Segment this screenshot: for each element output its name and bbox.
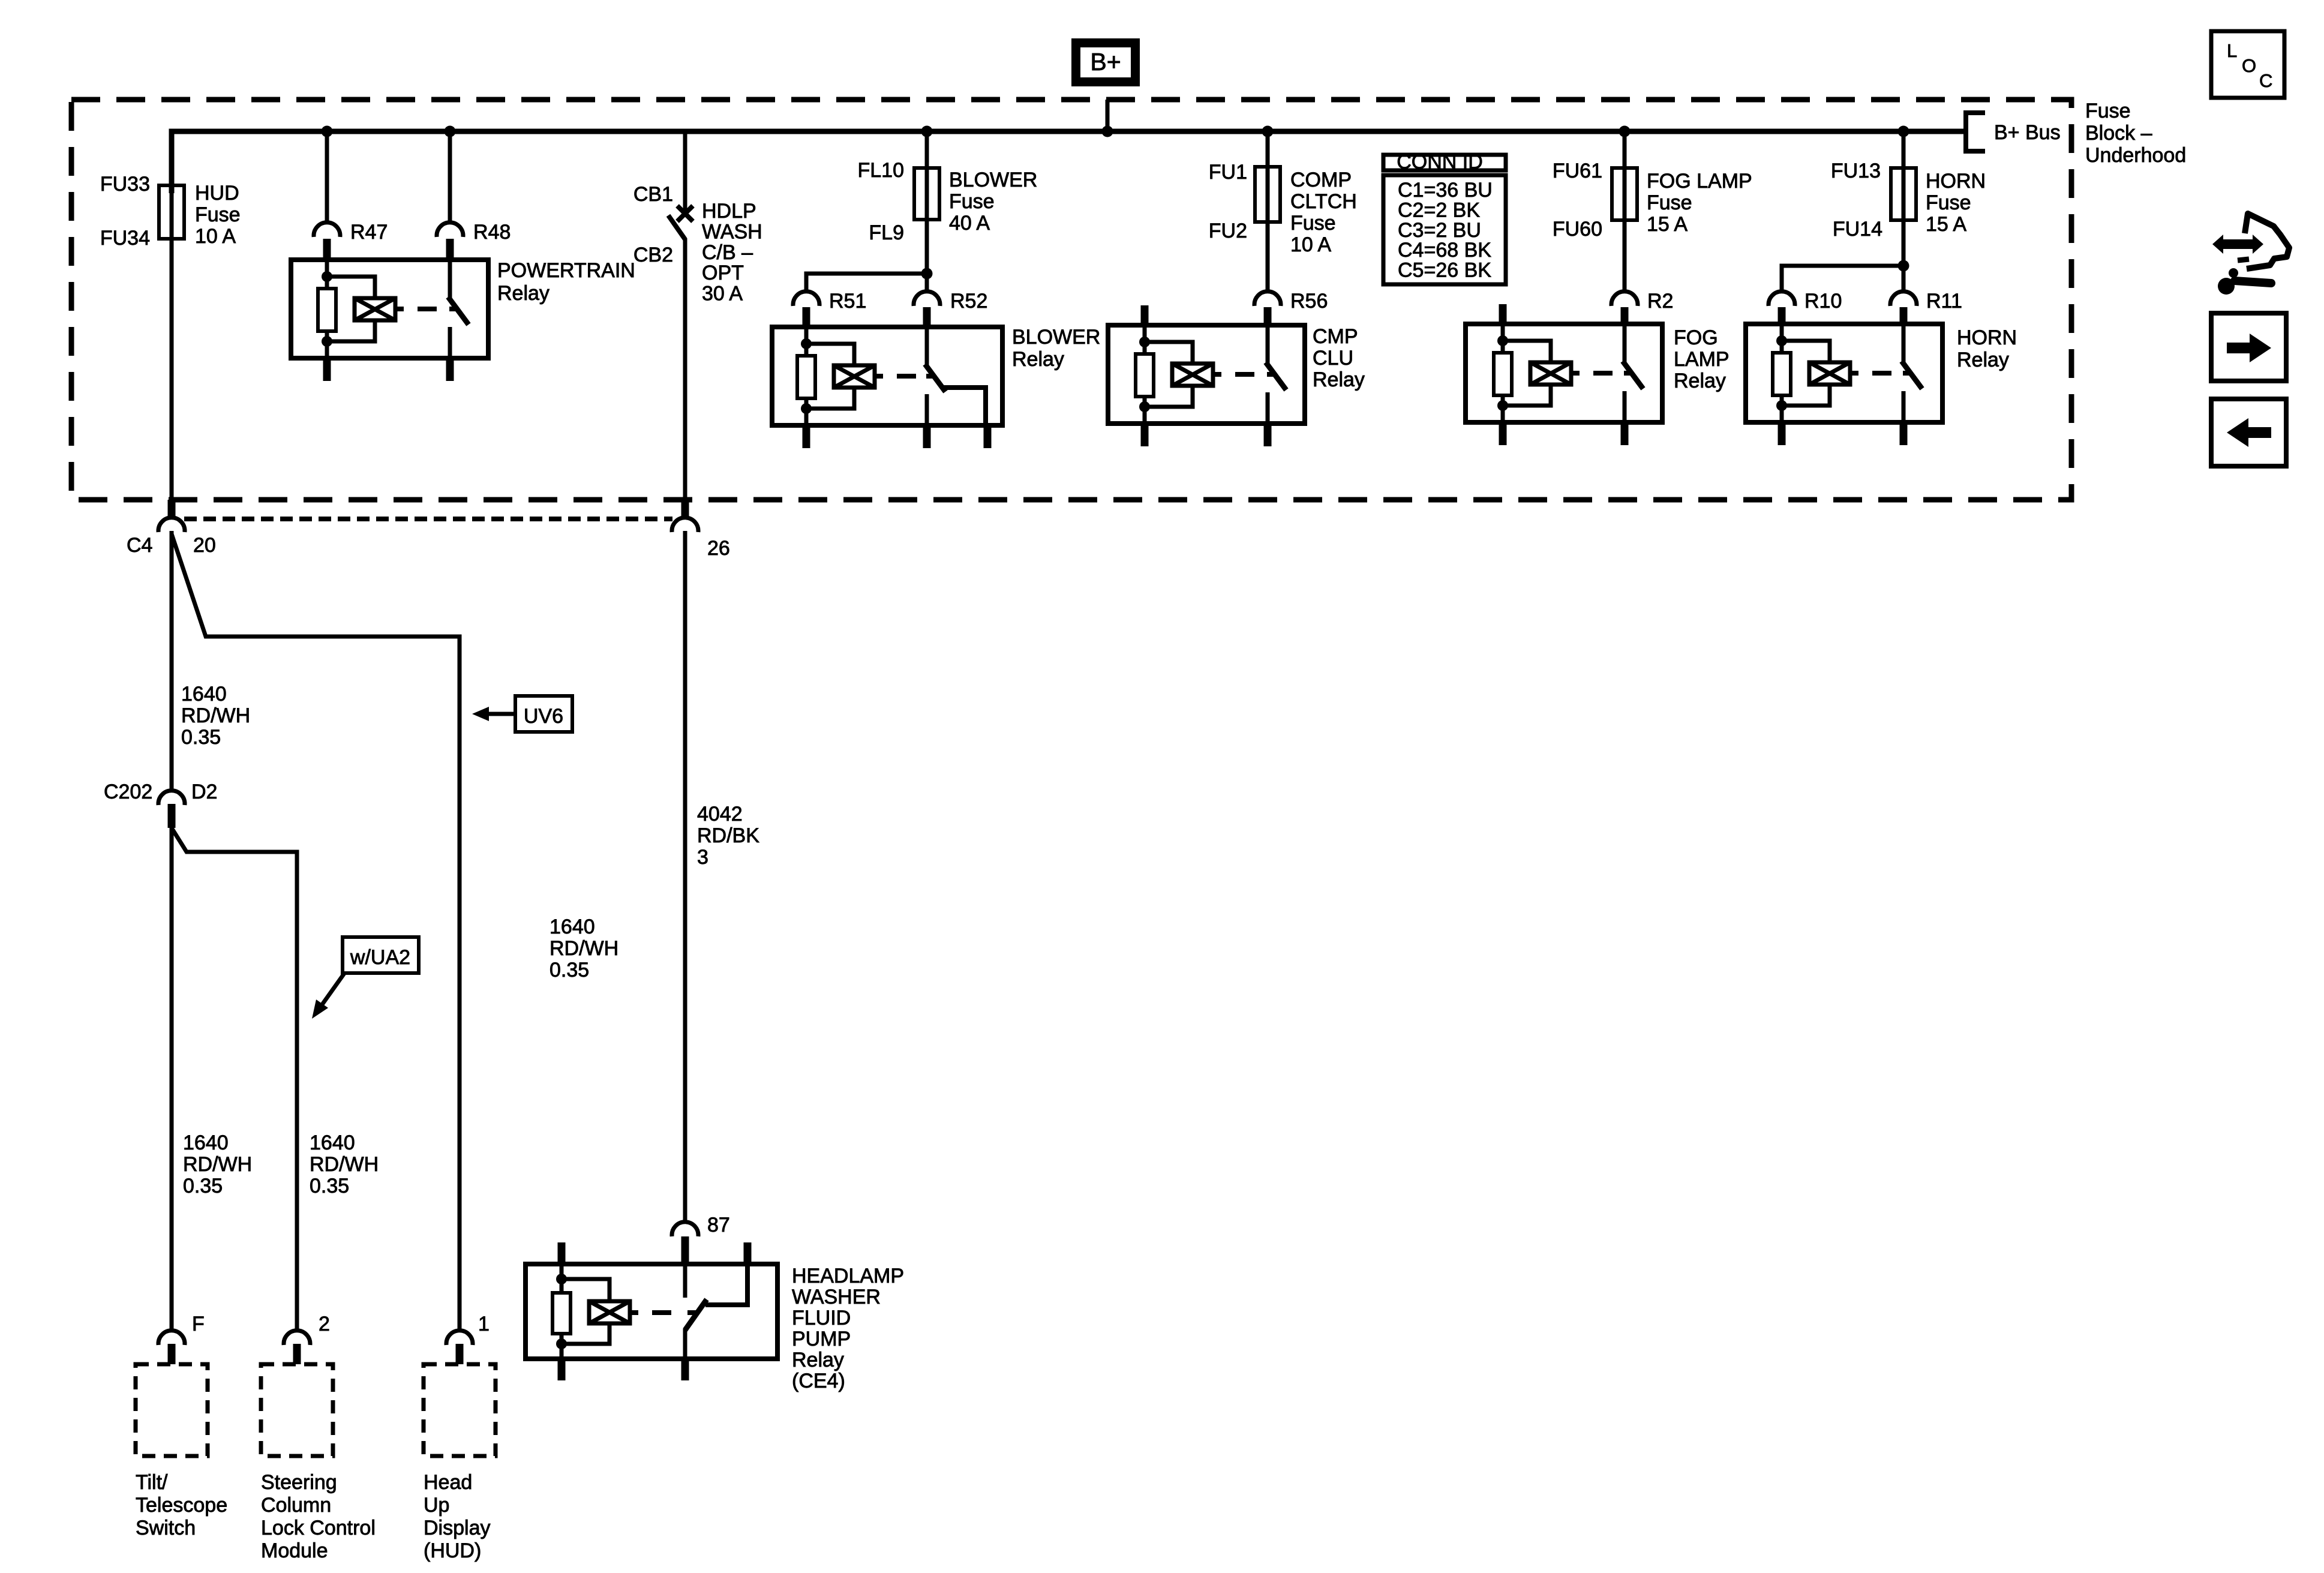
svg-text:B+: B+	[1090, 48, 1121, 76]
svg-text:BLOWER: BLOWER	[949, 169, 1037, 191]
svg-text:FOG: FOG	[1674, 326, 1718, 349]
svg-text:2: 2	[319, 1313, 330, 1335]
svg-text:FU14: FU14	[1833, 218, 1882, 241]
svg-text:0.35: 0.35	[183, 1175, 223, 1197]
svg-text:CONN ID: CONN ID	[1397, 151, 1483, 173]
svg-text:C: C	[2259, 70, 2272, 91]
svg-text:Underhood: Underhood	[2085, 144, 2186, 167]
svg-text:RD/WH: RD/WH	[310, 1153, 379, 1176]
svg-text:R48: R48	[473, 221, 511, 244]
svg-text:RD/WH: RD/WH	[183, 1153, 252, 1176]
svg-text:CLU: CLU	[1313, 347, 1353, 370]
svg-text:FU60: FU60	[1553, 218, 1602, 241]
svg-text:Relay: Relay	[1674, 370, 1726, 392]
svg-text:RD/WH: RD/WH	[181, 704, 250, 727]
svg-text:RD/WH: RD/WH	[550, 937, 618, 960]
svg-text:CB2: CB2	[633, 244, 673, 266]
svg-text:15 A: 15 A	[1926, 213, 1966, 236]
svg-text:FU2: FU2	[1209, 220, 1247, 242]
svg-text:POWERTRAIN: POWERTRAIN	[497, 259, 635, 282]
svg-text:FU34: FU34	[100, 227, 150, 250]
svg-text:C1=36 BU: C1=36 BU	[1398, 179, 1493, 202]
svg-text:w/UA2: w/UA2	[350, 946, 410, 969]
svg-text:R47: R47	[350, 221, 388, 244]
svg-text:Fuse: Fuse	[1647, 191, 1692, 214]
svg-text:L: L	[2227, 40, 2237, 61]
svg-text:40 A: 40 A	[949, 212, 990, 235]
svg-text:HORN: HORN	[1926, 170, 1986, 193]
svg-text:Relay: Relay	[1957, 349, 2009, 371]
svg-text:WASHER: WASHER	[792, 1286, 881, 1308]
svg-text:Module: Module	[261, 1539, 328, 1562]
svg-text:Tilt/: Tilt/	[136, 1471, 168, 1494]
svg-text:Fuse: Fuse	[1926, 191, 1971, 214]
svg-text:HEADLAMP: HEADLAMP	[792, 1265, 904, 1287]
svg-text:Fuse: Fuse	[2085, 100, 2131, 122]
svg-text:FU13: FU13	[1831, 160, 1881, 182]
svg-text:C/B –: C/B –	[702, 241, 753, 264]
svg-text:C4: C4	[127, 534, 152, 557]
svg-text:BLOWER: BLOWER	[1012, 326, 1100, 349]
svg-text:R2: R2	[1647, 290, 1673, 313]
svg-text:HDLP: HDLP	[702, 200, 756, 223]
svg-text:10 A: 10 A	[195, 225, 236, 248]
svg-text:Telescope: Telescope	[136, 1494, 227, 1517]
svg-text:Lock Control: Lock Control	[261, 1517, 376, 1539]
svg-text:WASH: WASH	[702, 220, 762, 243]
svg-text:R11: R11	[1926, 290, 1962, 313]
svg-text:3: 3	[697, 846, 708, 869]
svg-text:D2: D2	[191, 781, 217, 803]
svg-text:0.35: 0.35	[181, 726, 221, 749]
svg-text:Column: Column	[261, 1494, 331, 1517]
svg-text:10 A: 10 A	[1290, 233, 1331, 256]
svg-text:F: F	[192, 1313, 205, 1335]
svg-text:LAMP: LAMP	[1674, 348, 1730, 371]
svg-text:Relay: Relay	[497, 282, 550, 305]
svg-text:FOG LAMP: FOG LAMP	[1647, 170, 1752, 193]
svg-text:Steering: Steering	[261, 1471, 337, 1494]
svg-text:C4=68 BK: C4=68 BK	[1398, 239, 1491, 262]
svg-text:(HUD): (HUD)	[424, 1539, 481, 1562]
svg-text:26: 26	[707, 537, 730, 560]
svg-text:15 A: 15 A	[1647, 213, 1688, 236]
svg-text:Fuse: Fuse	[195, 203, 241, 226]
svg-text:OPT: OPT	[702, 262, 744, 284]
svg-text:UV6: UV6	[524, 705, 563, 728]
svg-text:FLUID: FLUID	[792, 1307, 851, 1329]
svg-text:R10: R10	[1804, 290, 1842, 313]
svg-text:Fuse: Fuse	[1290, 212, 1336, 235]
svg-text:FU61: FU61	[1553, 160, 1602, 182]
svg-text:FL10: FL10	[858, 159, 905, 182]
svg-text:1: 1	[478, 1313, 490, 1335]
svg-text:1640: 1640	[181, 683, 227, 706]
svg-text:COMP: COMP	[1290, 169, 1352, 191]
svg-text:C202: C202	[104, 781, 152, 803]
svg-text:1640: 1640	[310, 1131, 355, 1154]
svg-text:C3=2 BU: C3=2 BU	[1398, 219, 1481, 242]
svg-text:0.35: 0.35	[550, 959, 589, 981]
svg-text:C2=2 BK: C2=2 BK	[1398, 199, 1480, 221]
svg-text:Relay: Relay	[1012, 348, 1064, 371]
svg-text:CMP: CMP	[1313, 325, 1358, 348]
svg-text:0.35: 0.35	[310, 1175, 349, 1197]
svg-text:R51: R51	[829, 290, 866, 313]
svg-text:HUD: HUD	[195, 182, 239, 205]
svg-text:Relay: Relay	[792, 1349, 844, 1371]
svg-text:Display: Display	[424, 1517, 490, 1539]
svg-text:4042: 4042	[697, 803, 743, 825]
svg-text:HORN: HORN	[1957, 326, 2017, 349]
svg-text:CB1: CB1	[633, 183, 673, 206]
svg-text:Up: Up	[424, 1494, 449, 1517]
svg-text:20: 20	[193, 534, 216, 557]
svg-text:Head: Head	[424, 1471, 472, 1494]
svg-text:Relay: Relay	[1313, 368, 1365, 391]
svg-text:1640: 1640	[550, 915, 595, 938]
svg-text:Fuse: Fuse	[949, 190, 995, 213]
svg-text:B+ Bus: B+ Bus	[1994, 121, 2061, 144]
svg-text:87: 87	[707, 1214, 730, 1236]
svg-text:Switch: Switch	[136, 1517, 196, 1539]
svg-text:R52: R52	[950, 290, 987, 313]
svg-text:FL9: FL9	[869, 221, 904, 244]
svg-text:Block –: Block –	[2085, 122, 2152, 145]
svg-text:1640: 1640	[183, 1131, 229, 1154]
svg-text:FU33: FU33	[100, 173, 150, 196]
svg-text:FU1: FU1	[1209, 161, 1247, 184]
svg-text:RD/BK: RD/BK	[697, 824, 759, 847]
svg-text:(CE4): (CE4)	[792, 1370, 845, 1392]
svg-text:O: O	[2242, 55, 2256, 76]
svg-text:R56: R56	[1290, 290, 1328, 313]
svg-text:CLTCH: CLTCH	[1290, 190, 1357, 213]
svg-text:PUMP: PUMP	[792, 1328, 851, 1350]
svg-text:C5=26 BK: C5=26 BK	[1398, 259, 1491, 282]
svg-text:30 A: 30 A	[702, 283, 743, 305]
